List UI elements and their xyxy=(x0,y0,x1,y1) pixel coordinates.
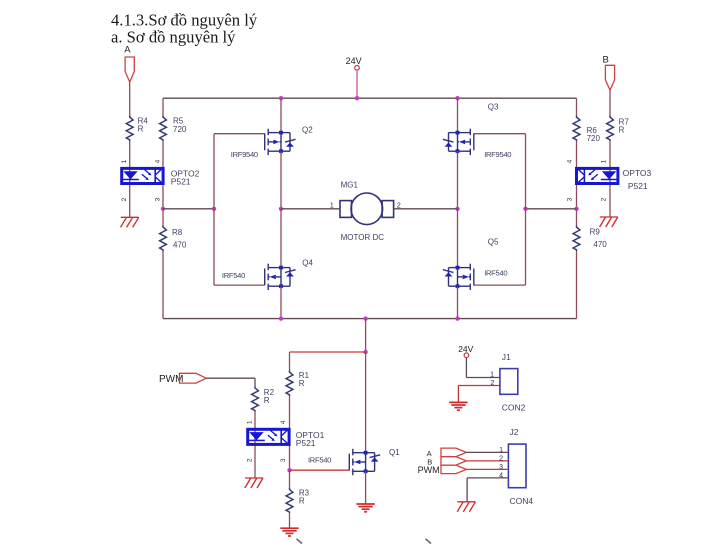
wire B to R7 xyxy=(609,90,611,115)
wire motor node to Q4 drain xyxy=(280,209,282,268)
svg-text:IRF9540: IRF9540 xyxy=(231,150,258,159)
node Q1 gate junction xyxy=(287,468,291,472)
svg-text:Q1: Q1 xyxy=(389,448,400,457)
24V power bubble xyxy=(355,66,360,71)
wire Q2 source to motor node xyxy=(280,151,282,209)
wire to Q1 gate xyxy=(290,469,350,471)
svg-text:4.1.3.Sơ đồ nguyên lý: 4.1.3.Sơ đồ nguyên lý xyxy=(111,10,258,29)
wire bottom rail down xyxy=(365,319,367,352)
svg-text:OPTO3: OPTO3 xyxy=(623,168,652,178)
node top rail Q3 xyxy=(455,96,459,100)
wire to J1 pin1 xyxy=(466,377,500,379)
svg-text:2: 2 xyxy=(121,197,128,201)
wire corner down to R2 xyxy=(254,378,256,386)
port connector PWM J2 xyxy=(441,465,466,474)
motor MG1 MOTOR DC xyxy=(340,193,394,225)
wire PWM to R2 xyxy=(206,377,255,379)
wire R6 to OPTO3 pin4, pin3 to R9 xyxy=(576,141,578,226)
cut-off text mark right xyxy=(426,539,432,544)
svg-text:R: R xyxy=(264,396,270,405)
node motor left xyxy=(279,207,283,211)
wire top rail 24V xyxy=(163,97,577,99)
ground J1 xyxy=(449,402,467,410)
transistor Q5 IRF540 xyxy=(443,264,474,290)
wire to Q3 gate xyxy=(474,133,526,135)
svg-text:IRF540: IRF540 xyxy=(308,456,331,465)
transistor Q3 IRF9540 xyxy=(443,129,474,155)
resistor R5 xyxy=(160,116,167,142)
node bottom rail Q4 xyxy=(279,316,283,320)
svg-text:J1: J1 xyxy=(502,352,511,362)
resistor R1 xyxy=(286,371,293,397)
wire to Q4 gate xyxy=(214,284,265,286)
wire Q5 source to bottom rail xyxy=(457,286,459,318)
wire Q3 source to motor node xyxy=(457,151,459,209)
svg-text:3: 3 xyxy=(499,464,503,471)
resistor R9 xyxy=(573,226,580,252)
wire gate bus left xyxy=(163,208,214,210)
wire to Q5 gate xyxy=(474,284,526,286)
svg-text:2: 2 xyxy=(490,380,494,387)
wire gate link left vertical xyxy=(213,134,215,285)
cut-off text mark left xyxy=(297,539,303,544)
resistor R7 xyxy=(607,116,614,142)
wire 24V down xyxy=(465,358,467,378)
svg-text:1: 1 xyxy=(499,447,503,454)
wire R8 to bottom rail xyxy=(162,251,164,319)
wire gate link right vertical xyxy=(525,134,527,285)
wire B to J2 pin2 xyxy=(466,460,508,462)
svg-text:R: R xyxy=(619,126,625,135)
wire Q4 source to bottom rail xyxy=(280,286,282,318)
node bottom rail Q5 xyxy=(455,316,459,320)
svg-text:PWM: PWM xyxy=(418,465,440,475)
svg-text:1: 1 xyxy=(490,371,494,378)
resistor R2 xyxy=(252,386,259,412)
svg-text:4: 4 xyxy=(566,159,573,163)
connector J1 CON2 xyxy=(500,369,518,395)
24V power bubble J1 xyxy=(464,353,469,358)
svg-text:R8: R8 xyxy=(172,228,183,237)
svg-text:2: 2 xyxy=(601,197,608,201)
node motor right xyxy=(455,207,459,211)
resistor R3 xyxy=(286,488,293,514)
node OPTO2 pin3 junction xyxy=(161,207,165,211)
wire J2 pin4 to ground xyxy=(466,478,468,502)
wire bottom rail xyxy=(163,318,577,320)
svg-text:1: 1 xyxy=(121,159,128,163)
connector J2 CON4 xyxy=(508,444,526,488)
node bottom rail center xyxy=(363,316,367,320)
wire J2 pin4 xyxy=(467,477,508,479)
svg-text:MG1: MG1 xyxy=(341,181,359,190)
wire J1 pin2 to ground xyxy=(457,386,459,403)
optocoupler OPTO3 P521 xyxy=(577,168,618,183)
wire rail to Q2 drain xyxy=(280,98,282,132)
svg-text:B: B xyxy=(603,55,609,66)
ground chassis J2 xyxy=(457,502,475,512)
transistor Q4 IRF540 xyxy=(265,264,296,290)
svg-text:3: 3 xyxy=(566,197,573,201)
wire A to J2 pin1 xyxy=(466,451,508,453)
svg-text:4: 4 xyxy=(499,472,503,479)
svg-text:R: R xyxy=(138,125,144,134)
wire rail to Q3 drain xyxy=(457,98,459,132)
resistor R8 xyxy=(160,226,167,252)
resistor R6 xyxy=(573,116,580,142)
svg-text:470: 470 xyxy=(593,240,607,249)
svg-text:P521: P521 xyxy=(296,438,316,448)
svg-text:470: 470 xyxy=(173,241,187,250)
transistor Q2 IRF9540 xyxy=(265,129,296,155)
wire junction to R3 xyxy=(289,470,291,488)
svg-text:P521: P521 xyxy=(171,177,191,187)
svg-text:1: 1 xyxy=(601,159,608,163)
wire left rail to R5 xyxy=(162,98,164,115)
wire R9 to bottom rail xyxy=(576,251,578,319)
svg-text:A: A xyxy=(427,449,432,458)
svg-text:3: 3 xyxy=(155,197,162,201)
svg-text:3: 3 xyxy=(280,458,287,462)
wire branch to R1 xyxy=(290,351,366,353)
svg-text:24V: 24V xyxy=(346,56,362,66)
svg-text:A: A xyxy=(124,45,131,56)
svg-text:Q3: Q3 xyxy=(488,103,499,112)
svg-text:2: 2 xyxy=(247,458,254,462)
wire motor pin2 xyxy=(394,208,458,210)
ground chassis OPTO1 xyxy=(245,478,263,488)
svg-text:720: 720 xyxy=(587,134,601,143)
wire 24V to top rail xyxy=(356,70,358,98)
wire R7 to OPTO3 pin1 and pin2 to ground xyxy=(609,141,611,217)
wire motor node to Q5 drain xyxy=(457,209,459,268)
svg-text:IRF9540: IRF9540 xyxy=(484,150,511,159)
svg-text:CON4: CON4 xyxy=(510,496,534,506)
svg-text:P521: P521 xyxy=(628,181,648,191)
wire motor pin1 xyxy=(281,208,340,210)
ground chassis OPTO2 xyxy=(121,217,139,227)
optocoupler OPTO2 P521 xyxy=(122,168,163,183)
ground Q1 xyxy=(356,504,374,512)
node R1 branch xyxy=(363,350,367,354)
wire R1 to OPTO1 pin4, pin3 down xyxy=(289,396,291,470)
svg-text:IRF540: IRF540 xyxy=(222,271,245,280)
wire R4 to OPTO2 pin1 and pin2 to ground xyxy=(129,141,131,217)
wire A to R4 xyxy=(129,82,131,116)
wire to J1 pin2 xyxy=(458,385,500,387)
ground R3 xyxy=(280,528,298,536)
ground chassis OPTO3 xyxy=(600,217,618,227)
svg-text:IRF540: IRF540 xyxy=(484,269,507,278)
node top rail Q2 xyxy=(279,96,283,100)
port connector B J2 xyxy=(441,457,466,466)
svg-text:2: 2 xyxy=(499,455,503,462)
svg-text:Q5: Q5 xyxy=(488,238,499,247)
svg-text:CON2: CON2 xyxy=(502,403,526,413)
wire R3 to ground xyxy=(289,513,291,528)
svg-text:J2: J2 xyxy=(510,427,519,437)
optocoupler OPTO1 P521 xyxy=(248,429,289,444)
wire Q1 source to ground xyxy=(365,471,367,504)
svg-text:720: 720 xyxy=(173,125,187,134)
svg-text:R: R xyxy=(299,379,305,388)
svg-text:R: R xyxy=(299,497,305,506)
svg-text:1: 1 xyxy=(247,420,254,424)
svg-text:4: 4 xyxy=(280,420,287,424)
resistor R4 xyxy=(126,116,133,142)
wire right rail to R6 xyxy=(576,98,578,115)
svg-text:4: 4 xyxy=(155,159,162,163)
node gate link right junction xyxy=(523,207,527,211)
wire PWM to J2 pin3 xyxy=(466,468,508,470)
node OPTO3 pin3 junction xyxy=(574,207,578,211)
node top rail 24V xyxy=(355,96,359,100)
wire R5 to OPTO2 pin4, pin3 to R8 xyxy=(162,141,164,226)
wire to R1 top xyxy=(289,352,291,371)
svg-text:Q4: Q4 xyxy=(302,259,313,268)
transistor Q1 IRF540 xyxy=(349,449,380,475)
wire gate bus right xyxy=(526,208,577,210)
svg-text:MOTOR DC: MOTOR DC xyxy=(341,233,385,242)
port connector A J2 xyxy=(441,448,466,457)
port connector A xyxy=(125,57,134,82)
wire R2 to OPTO1 pin1 and pin2 to ground xyxy=(254,412,256,478)
port connector PWM xyxy=(180,373,207,383)
port connector B xyxy=(605,65,614,90)
wire to Q2 gate xyxy=(214,133,265,135)
svg-text:R9: R9 xyxy=(590,228,601,237)
node gate link left junction xyxy=(212,207,216,211)
svg-text:Q2: Q2 xyxy=(302,126,313,135)
wire down to Q1 drain xyxy=(365,352,367,453)
